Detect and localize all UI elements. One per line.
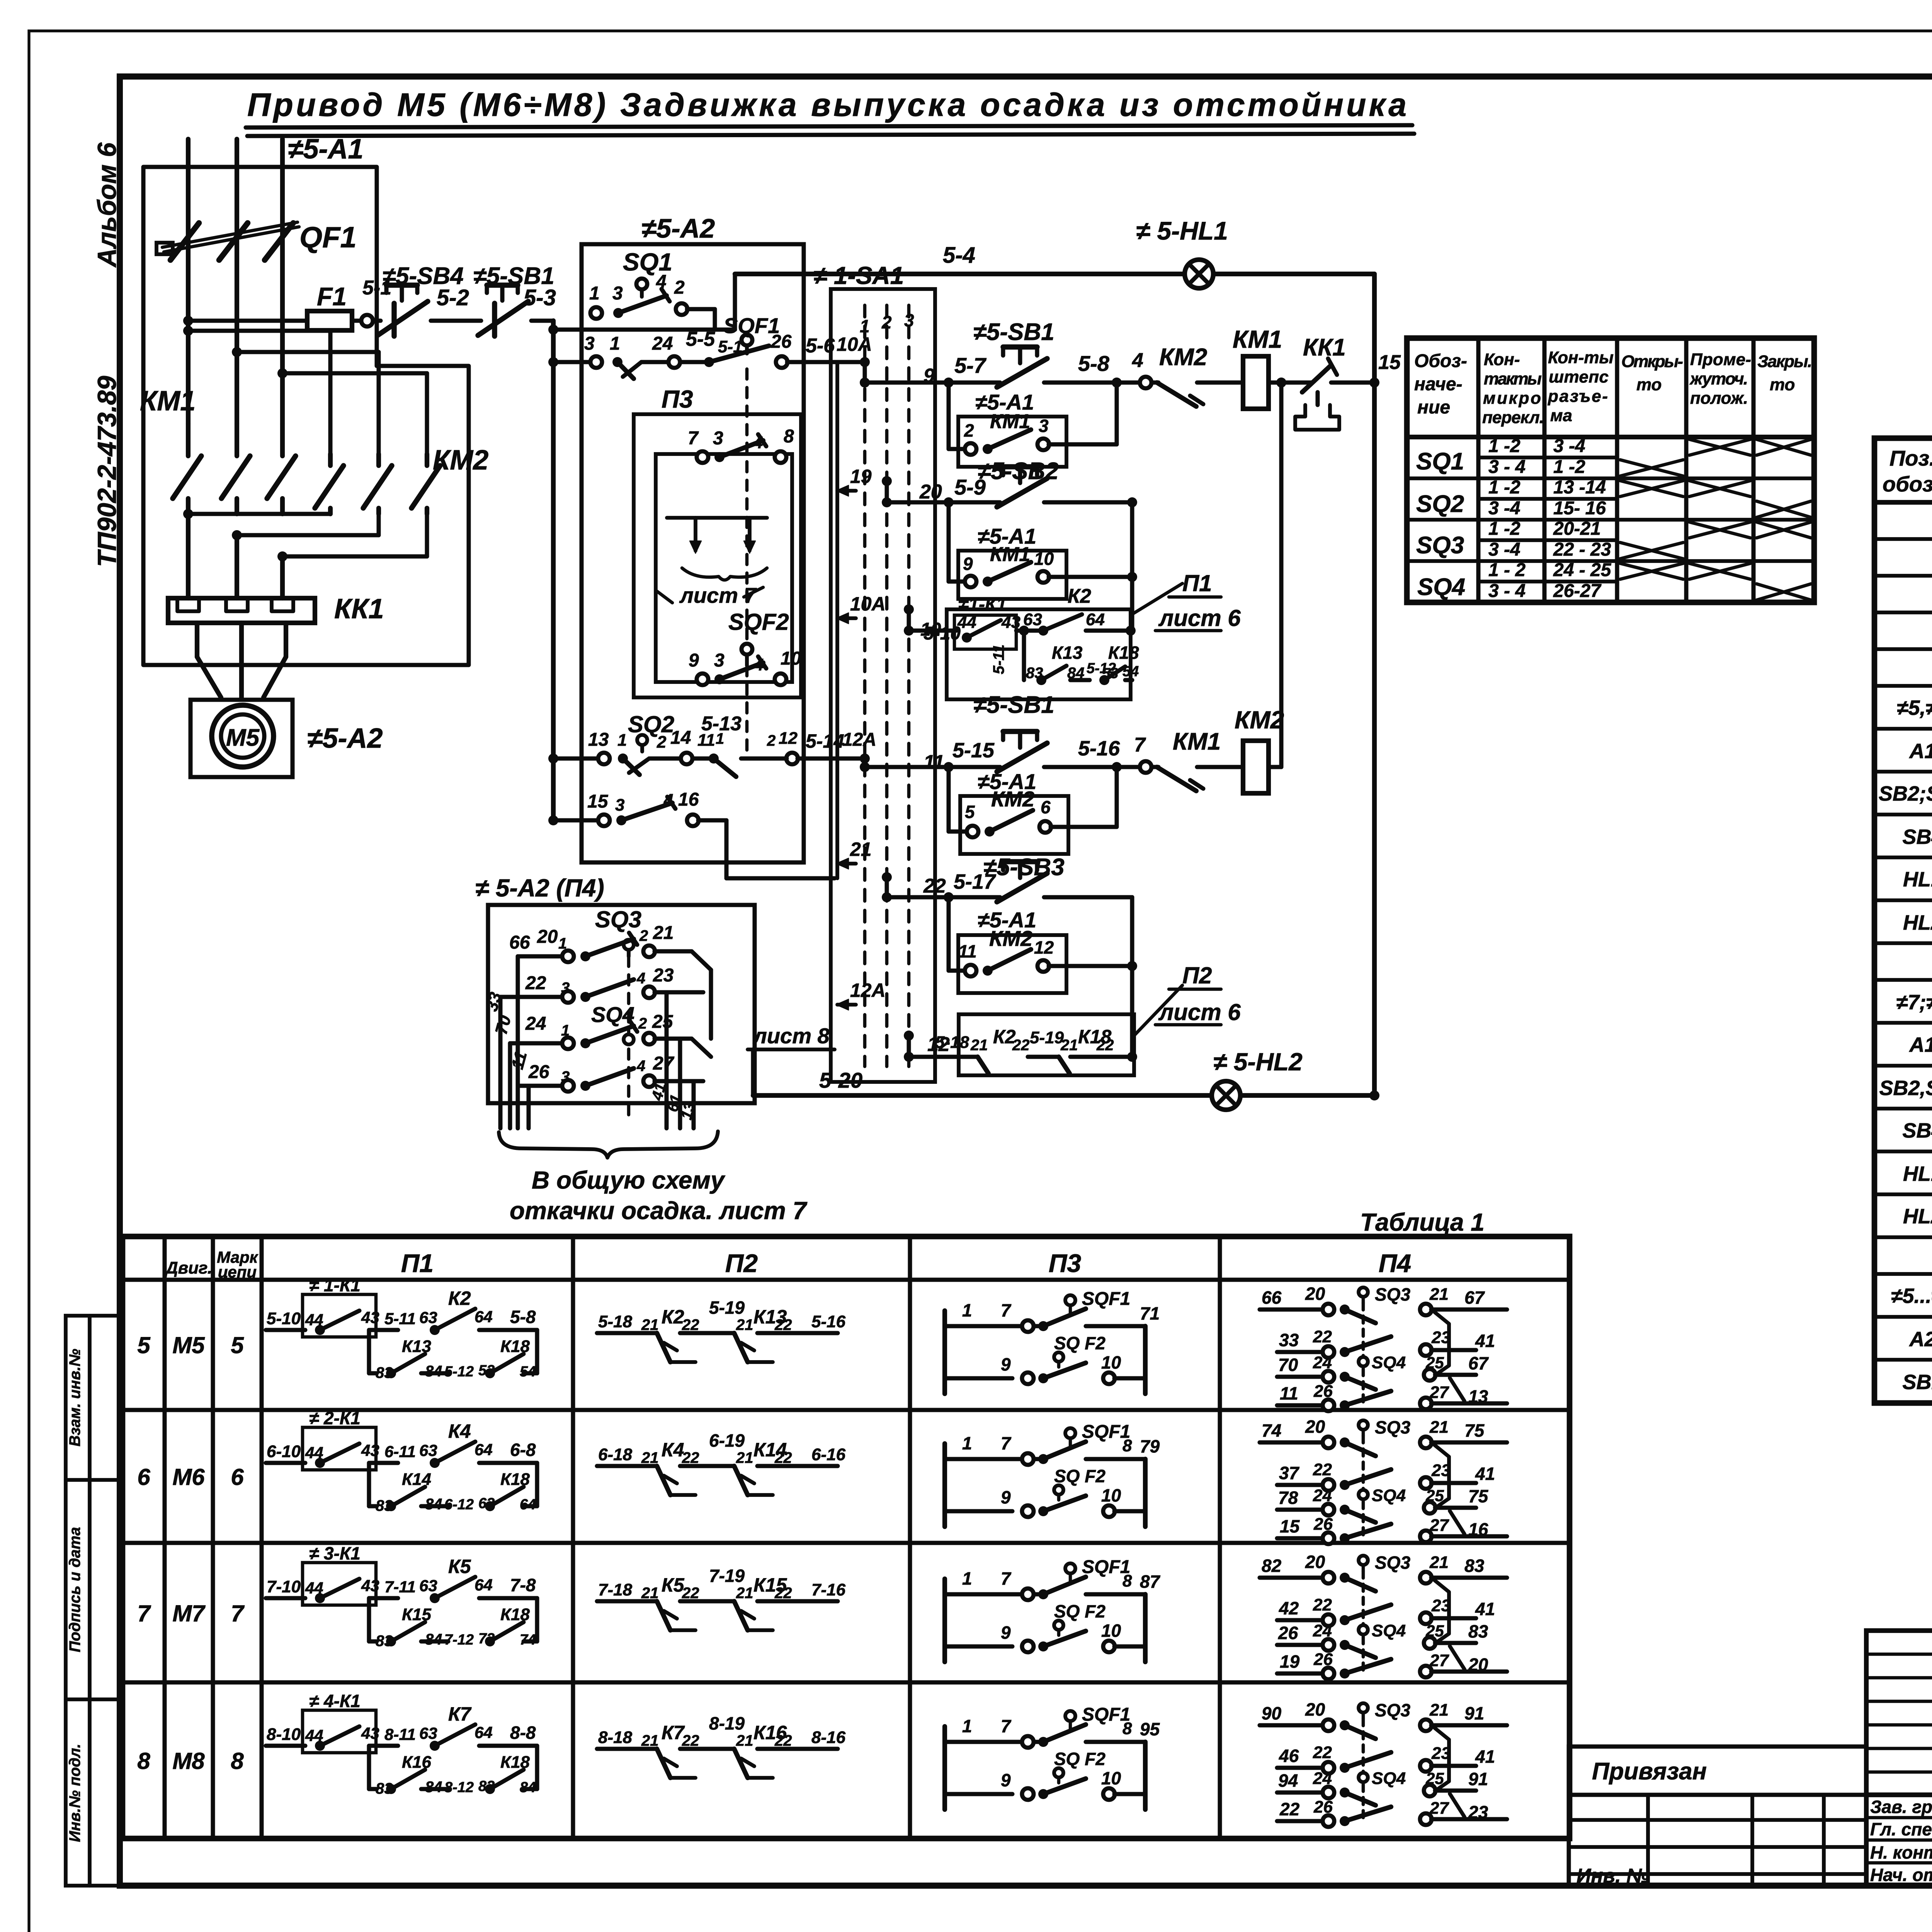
svg-text:Инв. №: Инв. № — [1577, 1865, 1650, 1887]
wire to right rail 15 — [1276, 351, 1401, 388]
contactor KM2 main contacts — [315, 454, 440, 514]
svg-text:Обоз-: Обоз- — [1414, 351, 1467, 371]
wire 5-8 — [1051, 351, 1140, 383]
svg-text:82: 82 — [1262, 1556, 1282, 1576]
svg-text:1: 1 — [716, 730, 724, 747]
svg-text:83: 83 — [1468, 1621, 1488, 1641]
svg-text:6: 6 — [1041, 797, 1051, 817]
svg-text:HL2: HL2 — [1903, 911, 1932, 934]
svg-text:15: 15 — [1378, 351, 1401, 374]
svg-text:SQ1: SQ1 — [1416, 448, 1464, 475]
switch SQ2 contact b — [709, 729, 798, 779]
svg-text:КМ1: КМ1 — [140, 386, 196, 417]
svg-text:75: 75 — [1468, 1486, 1489, 1506]
svg-text:КМ2: КМ2 — [1159, 344, 1207, 371]
wire rung5 to node — [1051, 897, 1132, 1036]
svg-text:43: 43 — [361, 1577, 379, 1595]
svg-text:SQ4: SQ4 — [1372, 1353, 1406, 1372]
svg-text:М8: М8 — [172, 1748, 205, 1774]
svg-text:70: 70 — [492, 1013, 515, 1036]
svg-text:67: 67 — [1464, 1287, 1485, 1308]
svg-text:2: 2 — [767, 732, 776, 749]
svg-text:5-3: 5-3 — [524, 285, 556, 310]
svg-text:8: 8 — [1122, 1719, 1132, 1738]
svg-text:5-9: 5-9 — [954, 475, 986, 499]
svg-text:22: 22 — [774, 1732, 792, 1749]
svg-text:20-21: 20-21 — [1553, 519, 1601, 539]
svg-text:F1: F1 — [317, 282, 347, 311]
svg-text:лист 6: лист 6 — [1158, 999, 1241, 1025]
svg-text:2: 2 — [674, 277, 685, 298]
svg-text:2: 2 — [656, 733, 667, 752]
SA1 junction dots rung3 — [904, 604, 914, 636]
svg-text:5-8: 5-8 — [510, 1307, 536, 1327]
svg-text:Закры.: Закры. — [1757, 352, 1812, 371]
svg-text:3 -4: 3 -4 — [1488, 498, 1520, 519]
svg-text:12А: 12А — [850, 980, 886, 1001]
svg-text:41: 41 — [1475, 1464, 1495, 1484]
svg-text:SQ4: SQ4 — [1372, 1769, 1406, 1788]
fuse F1 — [307, 311, 352, 330]
svg-text:90: 90 — [1262, 1703, 1282, 1723]
svg-text:Гл. спец: Гл. спец — [1870, 1819, 1932, 1839]
svg-text:10: 10 — [781, 648, 801, 669]
side bus with arrows — [836, 362, 886, 1010]
svg-text:≠ 4-К1: ≠ 4-К1 — [309, 1691, 361, 1711]
svg-text:21: 21 — [736, 1449, 753, 1466]
svg-text:5-20: 5-20 — [819, 1068, 862, 1092]
pushbutton 5-15 — [865, 731, 1051, 772]
svg-text:9: 9 — [1001, 1770, 1011, 1790]
svg-text:8-8: 8-8 — [510, 1723, 536, 1743]
svg-text:64: 64 — [474, 1440, 493, 1459]
svg-text:1: 1 — [962, 1716, 972, 1736]
svg-text:SQ F2: SQ F2 — [1054, 1333, 1105, 1353]
svg-text:26: 26 — [528, 1062, 549, 1082]
terminal 4 and KM2 NC — [1132, 344, 1243, 406]
pushbutton 5-9 — [887, 467, 1051, 507]
svg-text:SQ3: SQ3 — [595, 906, 641, 932]
svg-text:8: 8 — [784, 426, 794, 447]
coil KM1 — [1243, 356, 1269, 409]
svg-text:Инв.№ подл.: Инв.№ подл. — [66, 1744, 83, 1842]
svg-text:4: 4 — [754, 655, 764, 674]
svg-text:22: 22 — [682, 1585, 699, 1602]
svg-text:5-8: 5-8 — [1078, 351, 1110, 376]
svg-text:21: 21 — [736, 1732, 753, 1749]
svg-text:SQ2: SQ2 — [1416, 491, 1464, 517]
title underline — [246, 125, 1414, 136]
box П2 — [959, 1014, 1134, 1075]
svg-text:13 -14: 13 -14 — [1553, 477, 1606, 498]
svg-text:SВ2;SВ3: SВ2;SВ3 — [1879, 782, 1932, 805]
svg-text:П4: П4 — [1379, 1249, 1411, 1277]
svg-text:то: то — [1770, 375, 1795, 394]
svg-text:10А: 10А — [850, 593, 886, 615]
svg-text:1 -2: 1 -2 — [1488, 519, 1520, 539]
П1 circuit row 6 — [266, 1408, 537, 1514]
svg-text:5-16: 5-16 — [811, 1312, 846, 1331]
svg-text:К15: К15 — [402, 1605, 432, 1624]
svg-text:Альбом 6: Альбом 6 — [92, 142, 122, 268]
parts table rows — [1874, 539, 1932, 1403]
svg-text:3 - 4: 3 - 4 — [1488, 581, 1526, 601]
wire to control rail — [531, 319, 553, 323]
svg-text:SВ4: SВ4 — [1902, 1119, 1932, 1142]
circuit breaker QF1 — [156, 222, 299, 260]
svg-text:22: 22 — [774, 1585, 792, 1602]
svg-text:П1: П1 — [1182, 570, 1212, 596]
П3 circuit row — [945, 1289, 1160, 1394]
svg-text:22: 22 — [774, 1316, 792, 1333]
svg-text:КМ2: КМ2 — [1235, 706, 1284, 734]
SQ table headers — [1414, 348, 1812, 427]
svg-text:5-1: 5-1 — [718, 337, 743, 356]
svg-text:13: 13 — [588, 730, 609, 750]
svg-text:5-17: 5-17 — [954, 870, 997, 893]
П1 lower branch K13 K18 — [990, 626, 1139, 685]
svg-text:46: 46 — [1279, 1746, 1299, 1766]
svg-text:9: 9 — [963, 554, 973, 574]
signature rows — [1866, 1795, 1932, 1886]
svg-text:19: 19 — [850, 466, 872, 487]
svg-text:5-4: 5-4 — [943, 243, 975, 268]
svg-text:К13: К13 — [402, 1337, 431, 1356]
svg-text:SQ4: SQ4 — [1372, 1621, 1406, 1640]
svg-text:15: 15 — [587, 791, 609, 812]
svg-text:≠ 5-HL1: ≠ 5-HL1 — [1136, 216, 1228, 245]
svg-text:11: 11 — [1280, 1383, 1298, 1403]
svg-text:≠ 5-HL2: ≠ 5-HL2 — [1213, 1048, 1303, 1076]
svg-text:К16: К16 — [402, 1753, 432, 1772]
svg-text:≠ 1-SА1: ≠ 1-SА1 — [813, 262, 904, 289]
П4 circuit row — [1260, 1417, 1507, 1544]
svg-text:Привязан: Привязан — [1592, 1758, 1707, 1785]
svg-text:41: 41 — [1475, 1599, 1495, 1619]
box П1 — [947, 609, 1131, 699]
svg-text:≠5-А2: ≠5-А2 — [641, 213, 715, 243]
svg-text:66: 66 — [1262, 1287, 1282, 1308]
П3 internal arrows — [667, 518, 767, 580]
svg-text:95: 95 — [1140, 1719, 1160, 1739]
П3 circuit row — [945, 1422, 1160, 1527]
svg-text:3 -4: 3 -4 — [1488, 539, 1520, 560]
switch SQ1 contact a — [589, 272, 715, 330]
mech link dash SQ3-SQ4 — [627, 956, 631, 1121]
svg-text:19: 19 — [1280, 1651, 1300, 1672]
junction dot phase1 fuse tap — [183, 316, 193, 326]
svg-text:20: 20 — [1305, 1699, 1325, 1719]
svg-text:К5: К5 — [448, 1556, 471, 1577]
svg-text:71: 71 — [1140, 1303, 1160, 1323]
svg-text:21: 21 — [1429, 1418, 1449, 1437]
switch SQ1 contact b — [584, 333, 653, 381]
svg-text:П3: П3 — [662, 385, 693, 413]
contact 9-3/4-10 SQF2 — [689, 644, 801, 685]
svg-text:7: 7 — [1134, 734, 1146, 756]
lamp ≠5-HL2 — [1212, 1081, 1240, 1110]
svg-text:8-10: 8-10 — [267, 1725, 301, 1744]
SQ table X marks — [1620, 439, 1811, 600]
svg-text:7: 7 — [231, 1600, 245, 1626]
svg-text:8: 8 — [137, 1748, 150, 1774]
phase wire L1 — [186, 139, 190, 424]
svg-text:54: 54 — [1122, 663, 1139, 680]
П4 row4 switch — [518, 1053, 703, 1092]
svg-text:10: 10 — [1034, 549, 1054, 569]
svg-text:22 - 23: 22 - 23 — [1553, 539, 1611, 560]
svg-text:70: 70 — [1278, 1355, 1298, 1375]
svg-text:SQF1: SQF1 — [723, 313, 780, 338]
svg-text:9: 9 — [1001, 1622, 1011, 1643]
parts table header — [1883, 446, 1932, 496]
svg-text:5: 5 — [137, 1332, 151, 1358]
П2 circuit row 6 — [597, 1430, 846, 1495]
svg-text:22: 22 — [525, 973, 546, 993]
svg-text:перекл.: перекл. — [1482, 408, 1544, 427]
svg-text:SQ4: SQ4 — [1372, 1486, 1406, 1505]
svg-text:то: то — [1636, 375, 1662, 394]
svg-text:78: 78 — [1278, 1488, 1298, 1508]
svg-text:43: 43 — [361, 1441, 379, 1459]
wire 5-2 — [431, 319, 479, 323]
wire 5-6 10A — [787, 333, 872, 362]
svg-text:SQ4: SQ4 — [1417, 574, 1465, 600]
svg-text:1: 1 — [610, 333, 620, 354]
svg-text:67: 67 — [1468, 1353, 1489, 1373]
svg-text:Проме-: Проме- — [1690, 350, 1751, 369]
panel box ≠5-A2 — [582, 244, 804, 862]
svg-text:К2: К2 — [1068, 585, 1091, 607]
П4 row3 switch — [510, 1012, 711, 1057]
svg-text:7-12: 7-12 — [444, 1632, 474, 1648]
svg-text:6-8: 6-8 — [510, 1440, 536, 1460]
svg-text:15- 16: 15- 16 — [1553, 498, 1606, 519]
svg-text:5-5: 5-5 — [686, 328, 715, 350]
svg-text:64: 64 — [474, 1308, 493, 1326]
svg-text:23: 23 — [1431, 1596, 1451, 1615]
contactor KM1 main contacts — [173, 424, 296, 514]
svg-text:33: 33 — [1279, 1330, 1299, 1350]
svg-text:7: 7 — [688, 428, 699, 449]
svg-text:М5: М5 — [172, 1332, 205, 1358]
svg-text:К4: К4 — [662, 1439, 684, 1461]
svg-text:20: 20 — [537, 927, 558, 947]
svg-text:94: 94 — [1278, 1770, 1298, 1791]
svg-text:≠5-А2: ≠5-А2 — [307, 723, 383, 754]
svg-text:22: 22 — [682, 1316, 699, 1333]
wire SQ1 row2 from rail — [548, 357, 591, 367]
right rail — [1372, 274, 1377, 1095]
svg-text:1: 1 — [962, 1300, 972, 1320]
svg-text:11: 11 — [958, 941, 977, 961]
svg-text:21: 21 — [736, 1316, 753, 1333]
svg-text:SQF2: SQF2 — [728, 609, 789, 635]
svg-text:5-15: 5-15 — [952, 739, 995, 762]
svg-text:4: 4 — [636, 970, 645, 987]
svg-text:25: 25 — [652, 1012, 673, 1032]
svg-text:≠5,≠6: ≠5,≠6 — [1897, 696, 1932, 719]
km2 aux wires — [944, 762, 1122, 832]
svg-text:10: 10 — [1101, 1485, 1121, 1505]
km1 aux contact 2-3 — [964, 410, 1049, 455]
svg-text:3: 3 — [904, 310, 914, 330]
svg-text:10: 10 — [1101, 1768, 1121, 1788]
П1 K1 contact — [909, 594, 1043, 649]
svg-text:66: 66 — [509, 932, 530, 953]
svg-text:SQ3: SQ3 — [1375, 1284, 1410, 1304]
svg-text:QF1: QF1 — [299, 221, 357, 254]
svg-text:9: 9 — [689, 650, 699, 671]
svg-text:21: 21 — [736, 1585, 753, 1602]
svg-text:К18: К18 — [500, 1470, 530, 1489]
svg-text:А1: А1 — [1908, 1033, 1932, 1056]
svg-text:75: 75 — [1464, 1420, 1485, 1440]
svg-text:22: 22 — [1096, 1037, 1114, 1054]
svg-text:21: 21 — [1429, 1553, 1449, 1572]
mech link dash SQ1-SQF1-SQ2 — [745, 369, 749, 757]
svg-text:63: 63 — [419, 1724, 437, 1742]
svg-text:3: 3 — [714, 650, 724, 671]
svg-text:14: 14 — [670, 728, 691, 748]
svg-text:≠5-SВ1: ≠5-SВ1 — [973, 319, 1054, 345]
svg-text:≠5-SВ1: ≠5-SВ1 — [973, 692, 1054, 718]
svg-text:≠ 2-К1: ≠ 2-К1 — [309, 1408, 361, 1428]
svg-text:HL2: HL2 — [1903, 1205, 1932, 1228]
svg-text:23: 23 — [1431, 1328, 1451, 1347]
km1 aux branch wires — [944, 378, 1122, 449]
svg-text:20: 20 — [1305, 1284, 1325, 1304]
svg-text:6: 6 — [231, 1464, 244, 1490]
svg-text:12: 12 — [1034, 937, 1054, 957]
svg-text:SВ1: SВ1 — [1902, 1371, 1932, 1394]
svg-text:26-27: 26-27 — [1553, 581, 1602, 601]
svg-text:Двиг.: Двиг. — [164, 1259, 212, 1277]
svg-text:23: 23 — [1431, 1461, 1451, 1480]
svg-text:1: 1 — [962, 1568, 972, 1588]
svg-text:≠ 5-А2 (П4): ≠ 5-А2 (П4) — [475, 874, 604, 902]
SA1 junction dots rung1 — [860, 357, 870, 388]
svg-text:6-16: 6-16 — [811, 1445, 846, 1464]
П4 left verticals — [482, 956, 531, 1128]
svg-text:23: 23 — [1431, 1744, 1451, 1763]
svg-text:5-10: 5-10 — [267, 1309, 301, 1328]
svg-text:А2: А2 — [1908, 1328, 1932, 1351]
svg-text:21: 21 — [1060, 1037, 1078, 1054]
svg-text:7-10: 7-10 — [267, 1577, 301, 1596]
svg-text:≠7;≠8: ≠7;≠8 — [1896, 991, 1932, 1014]
svg-text:24 - 25: 24 - 25 — [1553, 560, 1612, 580]
svg-text:КК1: КК1 — [1303, 334, 1346, 361]
svg-text:К5: К5 — [662, 1574, 685, 1596]
svg-text:П1: П1 — [401, 1249, 434, 1277]
П2 circuit row 8 — [597, 1713, 846, 1778]
svg-text:1 - 2: 1 - 2 — [1488, 560, 1526, 580]
svg-text:8-11: 8-11 — [384, 1725, 416, 1743]
П4 circuit row — [1260, 1699, 1507, 1827]
contact 7-3/4-8 — [688, 426, 794, 463]
svg-text:КМ2: КМ2 — [991, 787, 1034, 811]
SQ table contact numbers — [1488, 436, 1612, 601]
SA1 junction dots rung2 — [882, 476, 892, 507]
motor M5 — [212, 705, 274, 767]
svg-text:79: 79 — [1140, 1436, 1160, 1456]
svg-text:4: 4 — [1132, 349, 1143, 372]
svg-text:Нач. отд.: Нач. отд. — [1870, 1865, 1932, 1885]
SA1 junction dots rung5 — [882, 872, 892, 902]
П4 row2 switch — [500, 965, 703, 1003]
svg-text:2: 2 — [639, 927, 648, 944]
km1 aux branch box ≠5-A1 — [958, 390, 1066, 467]
svg-text:SQ3: SQ3 — [1375, 1417, 1410, 1437]
svg-text:5-16: 5-16 — [1078, 737, 1120, 760]
wire SQ2 mid — [629, 728, 724, 773]
П1 circuit row 5 — [266, 1275, 537, 1381]
svg-text:такты: такты — [1484, 369, 1542, 388]
svg-text:8: 8 — [231, 1748, 244, 1774]
terminal 7 and KM1 NC — [1134, 728, 1243, 791]
pushbutton ≠5-SB4 (NC) — [373, 319, 381, 323]
П2 circuit row 5 — [597, 1298, 846, 1362]
svg-text:5-19: 5-19 — [709, 1298, 745, 1318]
wire 5-5 — [623, 328, 715, 377]
svg-text:7: 7 — [1001, 1568, 1012, 1588]
svg-text:жуточ.: жуточ. — [1689, 369, 1748, 388]
svg-text:22: 22 — [682, 1449, 699, 1466]
SA1 junction dots rung6 — [904, 1031, 914, 1062]
svg-text:22: 22 — [1012, 1037, 1030, 1054]
pushbutton ≠5-SB1 (NC) — [473, 319, 481, 323]
П4 right link — [692, 951, 711, 1039]
svg-text:SВ2,SВ3: SВ2,SВ3 — [1879, 1077, 1932, 1100]
svg-text:3: 3 — [615, 796, 624, 815]
svg-text:64: 64 — [474, 1576, 493, 1594]
km1 aux2 wires — [944, 497, 1137, 582]
svg-text:23: 23 — [653, 965, 674, 986]
svg-text:5-18: 5-18 — [935, 1033, 969, 1052]
svg-text:10: 10 — [1101, 1352, 1121, 1372]
svg-text:64: 64 — [474, 1723, 493, 1742]
svg-text:HL1: HL1 — [1903, 868, 1932, 891]
SA1 dashed contact lines — [860, 305, 914, 1066]
thermal contact KK1 control — [1295, 359, 1374, 430]
svg-text:27: 27 — [653, 1053, 675, 1074]
svg-text:обозн.: обозн. — [1883, 472, 1932, 496]
motor box — [190, 700, 293, 777]
svg-text:К7: К7 — [662, 1722, 685, 1743]
svg-text:3 -4: 3 -4 — [1553, 436, 1585, 456]
svg-text:24: 24 — [525, 1014, 546, 1034]
svg-text:15: 15 — [1280, 1516, 1300, 1536]
svg-text:5-7: 5-7 — [954, 353, 987, 378]
svg-text:9: 9 — [1001, 1487, 1011, 1507]
svg-text:6: 6 — [137, 1464, 150, 1490]
svg-text:П2: П2 — [725, 1249, 758, 1277]
svg-text:К7: К7 — [448, 1703, 472, 1725]
svg-text:8-18: 8-18 — [598, 1728, 633, 1747]
svg-text:20: 20 — [919, 481, 942, 503]
svg-text:5: 5 — [965, 802, 975, 822]
svg-text:11: 11 — [923, 751, 944, 774]
svg-text:SQ F2: SQ F2 — [1054, 1601, 1105, 1621]
pushbutton 5-17 — [887, 862, 1051, 902]
svg-text:3: 3 — [584, 333, 595, 354]
wire coil to KK1 — [1269, 381, 1312, 385]
bottom table row ids — [137, 1332, 245, 1774]
svg-text:Кон-: Кон- — [1484, 350, 1520, 369]
svg-text:полож.: полож. — [1690, 389, 1748, 408]
svg-text:44: 44 — [957, 613, 976, 632]
